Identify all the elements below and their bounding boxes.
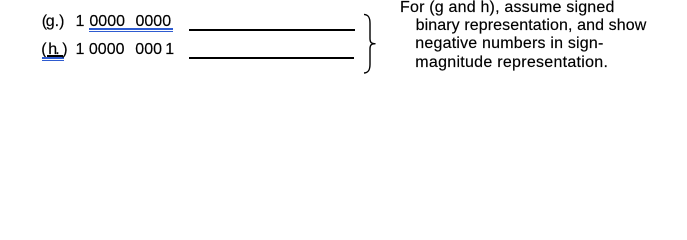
row g value 1 xyxy=(76,14,85,30)
row g nibble 0000 (high) xyxy=(89,14,125,30)
note line 2 xyxy=(416,18,647,34)
row h value 1 xyxy=(76,42,85,58)
row g label (g.) xyxy=(42,14,47,30)
note line 4 xyxy=(415,55,608,71)
answer line 2 xyxy=(189,57,354,59)
note line 1 xyxy=(400,0,615,16)
curly brace xyxy=(360,10,380,77)
row h blue double underline line 1 xyxy=(42,57,65,59)
row h label h. xyxy=(48,42,57,58)
row h label ( h.) open paren xyxy=(41,42,46,58)
row h label close paren xyxy=(62,42,67,58)
row h bit 1 (low) xyxy=(165,42,174,58)
row h nibble 0000 (high) xyxy=(89,42,125,58)
row h label period xyxy=(55,42,59,58)
answer line 1 xyxy=(189,29,355,31)
row g nibble 0000 (low) xyxy=(136,14,172,30)
row g blue double underline line 1 xyxy=(89,28,173,30)
row h nibble 0001 (low) xyxy=(135,42,162,58)
row h blue double underline line 2 xyxy=(42,60,65,61)
note line 3 xyxy=(415,36,603,52)
row g blue double underline line 2 xyxy=(89,31,173,32)
row h black underline under h. xyxy=(47,55,63,56)
row g label g.) xyxy=(46,14,65,30)
